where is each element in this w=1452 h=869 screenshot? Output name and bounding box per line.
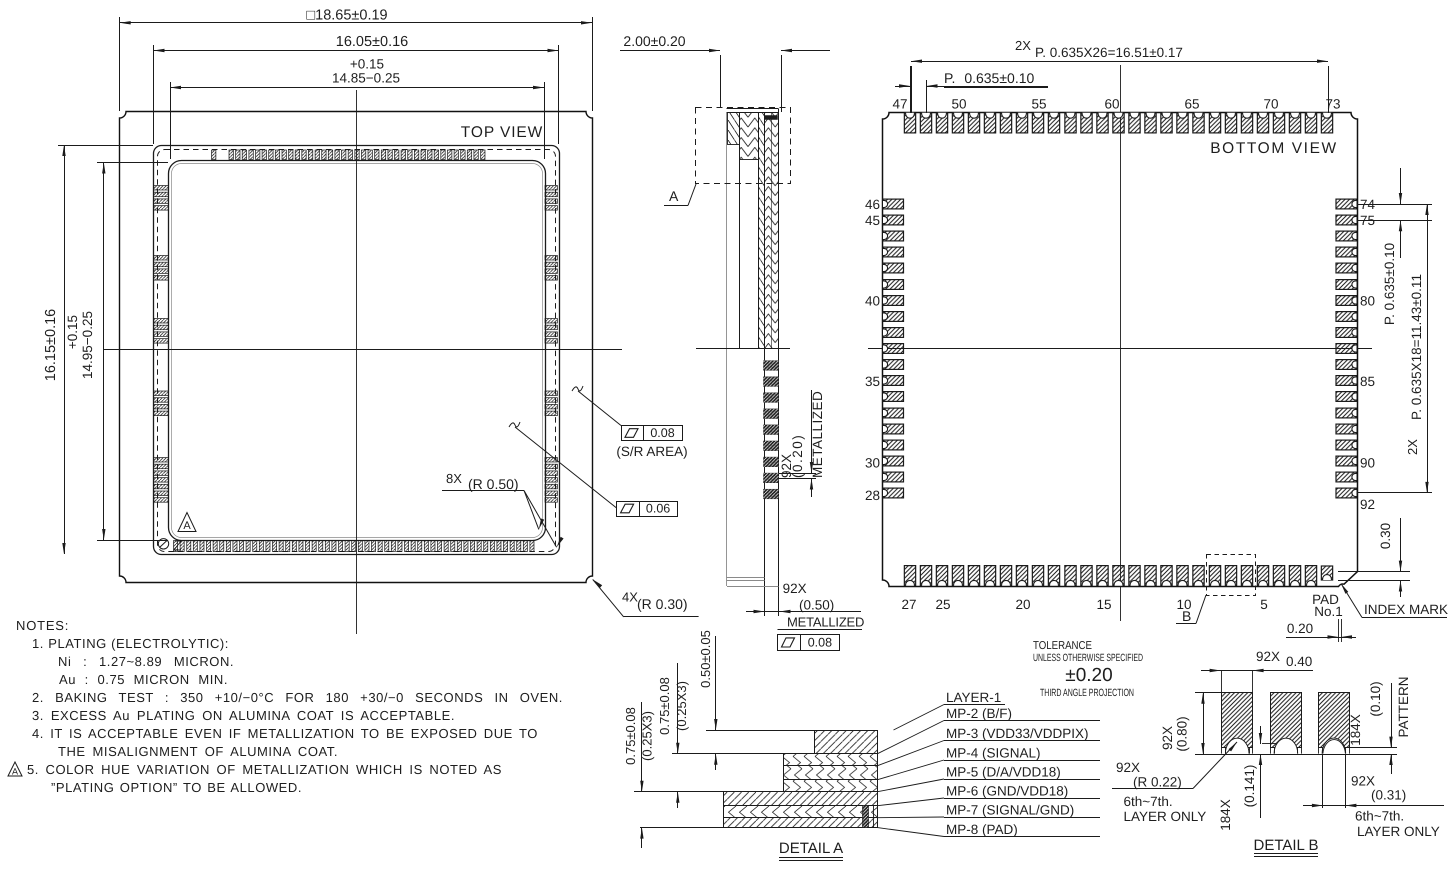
svg-text:25: 25: [935, 597, 950, 612]
svg-text:UNLESS OTHERWISE SPECIFIED: UNLESS OTHERWISE SPECIFIED: [1033, 652, 1143, 664]
svg-text:90: 90: [1360, 456, 1375, 471]
svg-text:40: 40: [865, 294, 880, 309]
svg-text:184X: 184X: [1218, 799, 1233, 831]
detail A callout dashed box: [696, 108, 791, 184]
svg-text:A: A: [183, 520, 191, 532]
Z mark at start of bottom finger row: [174, 541, 181, 550]
svg-text:MP-7 (SIGNAL/GND): MP-7 (SIGNAL/GND): [946, 803, 1074, 818]
svg-text:92X: 92X: [1256, 649, 1280, 664]
top view centerlines: [356, 90, 358, 634]
svg-text:THIRD ANGLE PROJECTION: THIRD ANGLE PROJECTION: [1040, 687, 1134, 699]
svg-text:27: 27: [901, 597, 916, 612]
svg-text:±0.20: ±0.20: [1065, 665, 1112, 686]
leader to 0.06 box: [509, 422, 520, 427]
leader to 0.08 S/R box: [572, 386, 583, 391]
section castellation pads: [764, 361, 779, 499]
triangle A mark inside cavity: [178, 513, 196, 532]
svg-text:+0.15: +0.15: [350, 57, 384, 72]
svg-text:0.20: 0.20: [1287, 621, 1313, 636]
fcf 0.08 S/R: [622, 426, 683, 441]
svg-text:MP-2 (B/F): MP-2 (B/F): [946, 706, 1012, 721]
svg-text:(0.20): (0.20): [790, 434, 805, 478]
svg-text:50: 50: [951, 97, 966, 112]
svg-text:45: 45: [865, 213, 880, 228]
svg-text:MP-6 (GND/VDD18): MP-6 (GND/VDD18): [946, 784, 1068, 799]
bottom view right pad column (pins 74-92): [1336, 199, 1357, 498]
svg-text:B: B: [1182, 608, 1191, 624]
svg-text:(0.31): (0.31): [1371, 788, 1406, 803]
bottom view centerlines: [1120, 65, 1122, 621]
bottom view left pad column (pins 46-28): [883, 199, 904, 498]
detail B pads: [1222, 693, 1253, 748]
svg-text:3. EXCESS Au PLATING ON ALUMIN: 3. EXCESS Au PLATING ON ALUMINA COAT IS …: [32, 708, 455, 723]
fcf 0.06: [617, 502, 678, 517]
svg-text:47: 47: [892, 97, 907, 112]
svg-text:6th~7th.: 6th~7th.: [1124, 794, 1173, 809]
svg-text:15: 15: [1096, 597, 1111, 612]
svg-text:92X: 92X: [1351, 774, 1375, 789]
svg-text:MP-3 (VDD33/VDDPIX): MP-3 (VDD33/VDDPIX): [946, 726, 1089, 741]
svg-text:46: 46: [865, 197, 880, 212]
section dark seal top: [765, 116, 778, 120]
svg-text:(0.141): (0.141): [1242, 765, 1257, 808]
section hatched wall blocks: [728, 113, 740, 145]
svg-text:P. 0.635X18=11.43±0.11: P. 0.635X18=11.43±0.11: [1409, 274, 1424, 420]
svg-text:P. 0.635X26=16.51±0.17: P. 0.635X26=16.51±0.17: [1035, 45, 1183, 60]
svg-text:(0.25X3): (0.25X3): [674, 681, 689, 731]
svg-text:(R 0.50): (R 0.50): [468, 476, 519, 492]
bottom view outline with index mark corner: [883, 113, 1358, 587]
svg-text:4X: 4X: [622, 590, 638, 605]
section centerline: [696, 348, 790, 350]
svg-text:P. 0.635±0.10: P. 0.635±0.10: [944, 70, 1034, 86]
svg-text:Ni : 1.27~8.89 MICRON.: Ni : 1.27~8.89 MICRON.: [58, 654, 234, 669]
svg-text:NOTES:: NOTES:: [16, 618, 69, 633]
svg-text:0.75±0.08: 0.75±0.08: [657, 677, 672, 735]
bottom view bottom pad row (pins 27-1): [904, 566, 1332, 586]
svg-text:MP-8 (PAD): MP-8 (PAD): [946, 822, 1018, 837]
top row bond fingers: [212, 150, 486, 160]
svg-text:PATTERN: PATTERN: [1396, 676, 1411, 737]
svg-text:DETAIL A: DETAIL A: [779, 840, 843, 857]
svg-text:2. BAKING TEST : 350 +10/−0°C: 2. BAKING TEST : 350 +10/−0°C FOR 180 +3…: [32, 690, 563, 705]
svg-text:A: A: [12, 767, 18, 777]
svg-text:80: 80: [1360, 294, 1375, 309]
detail B callout dashed box: [1207, 555, 1256, 596]
svg-text:0.50±0.05: 0.50±0.05: [698, 630, 713, 688]
svg-text:MP-4 (SIGNAL): MP-4 (SIGNAL): [946, 746, 1041, 761]
svg-text:55: 55: [1031, 97, 1046, 112]
svg-text:□18.65±0.19: □18.65±0.19: [306, 8, 387, 24]
detail A dim 0.75 mid: [677, 663, 679, 754]
svg-text:0.06: 0.06: [646, 502, 670, 516]
svg-text:(0.10): (0.10): [1368, 681, 1383, 716]
svg-text:”PLATING OPTION” TO BE ALLOWED: ”PLATING OPTION” TO BE ALLOWED.: [51, 780, 302, 795]
svg-text:(0.25X3): (0.25X3): [640, 711, 655, 761]
svg-text:6th~7th.: 6th~7th.: [1355, 809, 1404, 824]
detail B baseline: [1195, 754, 1397, 756]
svg-text:P. 0.635±0.10: P. 0.635±0.10: [1382, 243, 1397, 325]
svg-text:1. PLATING (ELECTROLYTIC):: 1. PLATING (ELECTROLYTIC):: [32, 636, 229, 651]
detail A extension lines: [706, 730, 814, 732]
right side dims: [1357, 204, 1432, 206]
svg-text:2X: 2X: [1405, 439, 1420, 455]
detail A dim 0.50: [715, 636, 717, 730]
svg-text:LAYER ONLY: LAYER ONLY: [1124, 809, 1207, 824]
svg-text:65: 65: [1184, 97, 1199, 112]
svg-text:20: 20: [1015, 597, 1030, 612]
svg-text:8X: 8X: [446, 471, 462, 486]
cavity opening: [169, 161, 546, 541]
svg-text:No.1: No.1: [1314, 604, 1343, 619]
svg-text:60: 60: [1104, 97, 1119, 112]
detail B via under pad3: [1322, 754, 1324, 808]
svg-text:0.08: 0.08: [650, 426, 674, 440]
svg-text:DETAIL B: DETAIL B: [1253, 837, 1318, 854]
svg-text:5: 5: [1260, 597, 1268, 612]
svg-text:MP-5 (D/A/VDD18): MP-5 (D/A/VDD18): [946, 765, 1061, 780]
svg-text:LAYER-1: LAYER-1: [946, 690, 1001, 705]
svg-text:0.30: 0.30: [1378, 523, 1393, 549]
svg-text:0.40: 0.40: [1286, 654, 1312, 669]
bottom row bond fingers: [174, 541, 535, 552]
svg-text:4. IT IS ACCEPTABLE EVEN IF ME: 4. IT IS ACCEPTABLE EVEN IF METALLIZATIO…: [32, 726, 538, 741]
svg-text:0.75±0.08: 0.75±0.08: [623, 707, 638, 765]
svg-text:28: 28: [865, 488, 880, 503]
svg-text:92: 92: [1360, 497, 1375, 512]
svg-text:(R 0.30): (R 0.30): [637, 596, 688, 612]
top view outer package outline: [120, 112, 593, 583]
svg-text:(0.50): (0.50): [799, 598, 834, 613]
svg-text:TOP VIEW: TOP VIEW: [461, 124, 543, 141]
svg-text:73: 73: [1325, 97, 1340, 112]
svg-text:(0.80): (0.80): [1175, 716, 1190, 751]
svg-text:35: 35: [865, 374, 880, 389]
svg-text:BOTTOM VIEW: BOTTOM VIEW: [1210, 140, 1338, 157]
pin1 circle mark: [158, 539, 168, 549]
svg-text:85: 85: [1360, 374, 1375, 389]
bottom view top pad row (pins 47-73): [904, 113, 1332, 133]
svg-text:(R 0.22): (R 0.22): [1133, 775, 1182, 790]
S/R area dashed outline: [158, 150, 556, 552]
svg-text:14.85−0.25: 14.85−0.25: [332, 71, 400, 86]
svg-text:Au : 0.75 MICRON MIN.: Au : 0.75 MICRON MIN.: [59, 672, 228, 687]
note 5 triangle mark: [8, 762, 22, 776]
svg-text:2.00±0.20: 2.00±0.20: [623, 33, 685, 49]
detail A dark via: [863, 806, 869, 828]
svg-text:2X: 2X: [1015, 38, 1031, 53]
svg-text:16.15±0.16: 16.15±0.16: [43, 309, 59, 381]
svg-text:14.95−0.25: 14.95−0.25: [80, 311, 95, 379]
svg-text:A: A: [669, 188, 679, 204]
svg-text:30: 30: [865, 456, 880, 471]
svg-text:+0.15: +0.15: [65, 315, 80, 349]
section view: [726, 113, 728, 586]
svg-text:92X: 92X: [1116, 760, 1140, 775]
svg-text:0.08: 0.08: [808, 636, 832, 650]
svg-text:16.05±0.16: 16.05±0.16: [336, 34, 408, 50]
detail A stack: [815, 731, 878, 754]
svg-text:LAYER ONLY: LAYER ONLY: [1357, 824, 1440, 839]
svg-text:INDEX MARK: INDEX MARK: [1364, 602, 1448, 617]
left/right side bond finger groups: [154, 186, 558, 503]
svg-text:5. COLOR HUE VARIATION OF META: 5. COLOR HUE VARIATION OF METALLIZATION …: [27, 762, 502, 777]
svg-text:184X: 184X: [1348, 714, 1363, 746]
top view body (ceramic top surface): [154, 146, 560, 555]
svg-text:TOLERANCE: TOLERANCE: [1033, 640, 1092, 652]
fcf 0.08 bottom: [778, 635, 840, 651]
detail A dim 0.75 left: [641, 702, 643, 792]
svg-text:(S/R AREA): (S/R AREA): [616, 444, 687, 459]
svg-text:92X: 92X: [1160, 726, 1175, 750]
section bottom edges: [727, 577, 765, 579]
svg-text:THE MISALIGNMENT OF ALUMINA CO: THE MISALIGNMENT OF ALUMINA COAT.: [58, 744, 338, 759]
svg-text:METALLIZED: METALLIZED: [787, 614, 864, 629]
svg-text:92X: 92X: [783, 581, 807, 596]
svg-text:70: 70: [1263, 97, 1278, 112]
